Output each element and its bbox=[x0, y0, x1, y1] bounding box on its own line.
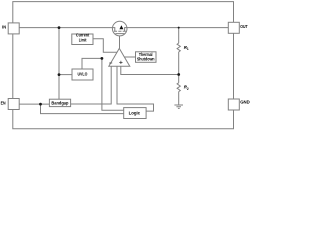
svg-text:EN: EN bbox=[1, 101, 6, 106]
wire to UVLO left bbox=[59, 74, 72, 76]
op-amp U1 bbox=[109, 48, 130, 66]
junction dot feedback bbox=[177, 73, 180, 76]
wire EN rail bbox=[19, 103, 49, 105]
svg-text:2: 2 bbox=[187, 87, 189, 91]
svg-text:OUT: OUT bbox=[240, 24, 248, 29]
pin GND bbox=[228, 99, 239, 110]
resistor R2 bbox=[177, 83, 180, 92]
svg-text:UVLO: UVLO bbox=[77, 71, 87, 76]
wire OUT rail bbox=[127, 27, 228, 29]
box UVLO bbox=[72, 69, 93, 80]
svg-text:Limit: Limit bbox=[79, 37, 87, 42]
wire junction to R2 bbox=[178, 75, 180, 83]
junction dot UVLO-logic bbox=[101, 57, 104, 60]
pin EN bbox=[8, 99, 19, 110]
svg-text:Shutdown: Shutdown bbox=[137, 57, 155, 62]
svg-text:IN: IN bbox=[2, 25, 6, 30]
wire EN branch to logic bbox=[41, 104, 124, 114]
wire R1 to R2 junction bbox=[178, 52, 180, 75]
wire IN branch down to bandgap bbox=[58, 28, 60, 100]
box logic bbox=[124, 108, 146, 119]
wire R2 to ground bbox=[178, 92, 180, 105]
junction dot UVLO tap bbox=[58, 73, 61, 76]
box bandgap bbox=[49, 99, 70, 106]
wire divider top bbox=[178, 28, 180, 43]
svg-text:Bandgap: Bandgap bbox=[51, 101, 68, 106]
pin IN bbox=[8, 23, 19, 34]
wire IN rail bbox=[19, 27, 112, 29]
box current limit bbox=[72, 34, 93, 45]
transistor internals bbox=[112, 28, 127, 34]
amp plus mark bbox=[119, 61, 122, 64]
wire gate from pass fet to amp bbox=[119, 34, 121, 49]
transistor pass PMOS circle bbox=[112, 21, 127, 36]
box thermal shutdown bbox=[136, 52, 157, 63]
wire bandgap out to amp minus input bbox=[71, 66, 112, 104]
ground bbox=[174, 105, 183, 108]
wire amp middle input to logic right bbox=[117, 66, 154, 111]
junction dot EN branch bbox=[39, 103, 42, 106]
wire current limit out to amp bbox=[93, 39, 117, 53]
amp minus mark bbox=[109, 62, 112, 64]
junction dot IN branch bbox=[58, 26, 61, 29]
wire UVLO junction down to logic bbox=[102, 58, 124, 110]
wire UVLO top riser bbox=[82, 58, 102, 69]
junction dot divider top bbox=[178, 27, 180, 29]
border frame bbox=[13, 2, 234, 129]
wire feedback from divider to amp plus input bbox=[121, 66, 179, 74]
resistor R1 bbox=[177, 43, 180, 52]
svg-text:GND: GND bbox=[240, 100, 250, 105]
svg-text:Logic: Logic bbox=[129, 111, 141, 116]
wire amp to thermal shutdown bbox=[124, 56, 135, 58]
pin OUT bbox=[228, 22, 239, 33]
transistor arrow bbox=[119, 25, 123, 29]
svg-text:1: 1 bbox=[187, 47, 189, 51]
